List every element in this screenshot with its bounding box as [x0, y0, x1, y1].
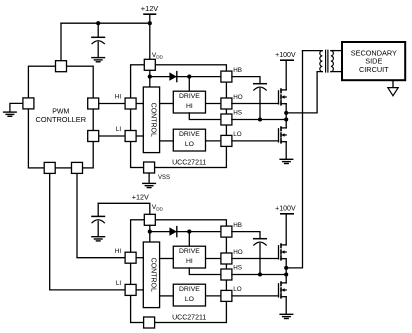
- transformer secondary winding: [331, 51, 333, 72]
- svg-text:LI: LI: [116, 126, 122, 133]
- wire Q2 source to ground: [285, 142, 287, 159]
- node dot C2 to HS wire: [258, 117, 262, 121]
- control block U2: [143, 242, 159, 308]
- wire PWM bottom pin1 to UCC2 LI: [50, 173, 125, 290]
- pin U1 HO: [221, 98, 232, 109]
- svg-text:HI: HI: [186, 103, 193, 110]
- signal ground triangle (secondary): [388, 88, 398, 96]
- svg-text:+100V: +100V: [275, 206, 296, 213]
- wire U1 drive lo to LO pin: [206, 140, 221, 142]
- bootstrap capacitor C4: [232, 232, 266, 275]
- wire U1 LO to Q2 gate: [232, 140, 279, 142]
- wire VDD feed down to UCC1: [149, 23, 151, 59]
- wire U2 HI pin to control: [136, 257, 143, 259]
- svg-text:CONTROLLER: CONTROLLER: [36, 115, 87, 124]
- label DRIVE HI (U2): [179, 248, 200, 265]
- wire U1 HI pin to control: [136, 103, 143, 105]
- svg-text:HS: HS: [233, 265, 242, 272]
- svg-text:DRIVE: DRIVE: [179, 131, 200, 138]
- wire U1 HO to Q1 gate: [232, 103, 279, 105]
- wire U1 control to drive lo: [160, 140, 174, 142]
- svg-text:+12V: +12V: [141, 4, 159, 13]
- ground below Q4: [280, 314, 293, 318]
- svg-text:LI: LI: [116, 280, 122, 287]
- pin U1 VDD: [144, 59, 155, 70]
- wire secondary top to box: [331, 50, 341, 52]
- node dot U2 diode anode: [148, 230, 152, 234]
- wire U2 VDD stub to diode row: [149, 225, 151, 231]
- node dot U2 diode cathode: [187, 230, 191, 234]
- svg-text:HI: HI: [115, 248, 122, 255]
- label VDD (U1): [152, 52, 164, 59]
- svg-text:VSS: VSS: [158, 175, 170, 181]
- pin U1 VSS: [144, 162, 155, 173]
- label SECONDARY SIDE CIRCUIT: [351, 48, 397, 73]
- wire U1 drive hi to HS pin: [189, 113, 221, 120]
- node dot switch node HS (top): [284, 117, 288, 121]
- wire U2 drive-hi top stub: [188, 232, 190, 246]
- wire +12V rail horizontal: [61, 22, 150, 24]
- bootstrap capacitor C2: [232, 77, 266, 120]
- svg-text:DRIVE: DRIVE: [179, 93, 200, 100]
- wire U1 VSS stub: [148, 173, 150, 183]
- pin PWM right HI: [88, 98, 99, 109]
- pin PWM left (GND): [23, 98, 34, 109]
- pin U1 LI: [125, 131, 136, 142]
- wire U2 diode row: [150, 231, 221, 233]
- wire U1 drive-hi top stub: [188, 77, 190, 91]
- pin PWM top (VCC): [56, 61, 67, 72]
- power bar +100V (bottom): [281, 213, 293, 215]
- wire switch node to primary bottom (top bridge): [286, 72, 322, 113]
- wire Q3 source down to Q4 drain: [285, 259, 287, 283]
- wire U1 LI pin to control: [136, 135, 143, 137]
- UCC27211 U1 outer box: [131, 65, 227, 168]
- wire U1 control to drive hi: [160, 103, 174, 105]
- wire PWM LI output to UCC1 LI: [99, 135, 125, 137]
- UCC27211 U2 outer box: [131, 220, 227, 323]
- pin U1 HB: [221, 71, 232, 82]
- svg-text:LO: LO: [233, 286, 242, 293]
- wire secondary box to signal ground: [392, 81, 394, 87]
- label DRIVE LO (U1): [179, 131, 200, 148]
- wire +12V rail to UCC2 VDD: [98, 203, 150, 214]
- transformer primary winding: [320, 51, 322, 72]
- svg-text:CIRCUIT: CIRCUIT: [359, 65, 389, 74]
- wire PWM left pin to ground: [10, 103, 23, 112]
- wire +100V to Q3 drain: [285, 214, 287, 245]
- wire U2 control to drive lo: [160, 295, 174, 297]
- wire U2 drive hi to HS pin: [189, 268, 221, 275]
- pin U2 HB: [221, 226, 232, 237]
- svg-text:CONTROL: CONTROL: [150, 103, 157, 137]
- drive hi block U1: [173, 91, 205, 113]
- node dot C4 to HS wire: [258, 272, 262, 276]
- capacitor C3 (12V bypass, bottom): [92, 203, 105, 236]
- svg-text:+100V: +100V: [275, 52, 296, 59]
- svg-text:HI: HI: [186, 258, 193, 265]
- label DRIVE HI (U1): [179, 93, 200, 110]
- svg-text:HB: HB: [233, 222, 242, 229]
- wire U2 control to drive hi: [160, 258, 174, 260]
- ground below Q2: [280, 159, 293, 163]
- mosfet Q4 (low side, bottom bridge): [279, 282, 287, 298]
- pin U2 VDD: [144, 214, 155, 225]
- wire PWM HI output to UCC1 HI: [99, 103, 125, 105]
- node dot U1 diode cathode: [187, 75, 191, 79]
- svg-text:UCC27211: UCC27211: [172, 160, 206, 167]
- wire Q1 source down to Q2 drain: [285, 104, 287, 128]
- pin U1 HS: [221, 114, 232, 125]
- node junction dot at +12V tee: [148, 21, 152, 25]
- svg-text:HB: HB: [233, 67, 242, 74]
- wire secondary bottom to box: [331, 71, 341, 73]
- wire U2 control stub: [149, 232, 151, 242]
- wire +12V stub: [149, 14, 151, 23]
- wire primary top to long vertical: [303, 50, 323, 52]
- pin U2 LO: [221, 290, 232, 301]
- pin U1 LO: [221, 135, 232, 146]
- wire U2 drive hi to HO pin: [206, 258, 221, 260]
- wire PWM bottom pin2 to UCC2 HI: [77, 173, 125, 257]
- wire U1 VDD stub to diode row: [149, 70, 151, 76]
- mosfet Q1 (high side, top bridge): [279, 89, 287, 105]
- label VDD (U2): [152, 204, 164, 211]
- capacitor C1 (12V bypass, top): [92, 23, 105, 57]
- ground below U1 VSS: [143, 183, 156, 187]
- pin PWM bottom 1: [44, 162, 55, 173]
- ground below C3: [92, 237, 105, 241]
- svg-text:DD: DD: [156, 207, 163, 212]
- svg-text:HS: HS: [233, 110, 242, 117]
- svg-text:HO: HO: [233, 249, 243, 256]
- pin PWM right LI: [88, 131, 99, 142]
- svg-text:LO: LO: [185, 141, 194, 148]
- power bar +100V (top): [281, 59, 293, 61]
- pin PWM bottom 2: [72, 162, 83, 173]
- wire U1 drive hi to HO pin: [206, 103, 221, 105]
- control block U1: [143, 87, 159, 153]
- wire U2 HS row to switch node: [232, 274, 286, 276]
- svg-text:LO: LO: [185, 296, 194, 303]
- drive lo block U1: [173, 129, 205, 151]
- node dot switch node to transformer (top): [284, 111, 288, 115]
- drive hi block U2: [173, 246, 205, 268]
- pin U2 HI: [125, 252, 136, 263]
- wire U1 control stub: [149, 77, 151, 87]
- PWM controller box: [28, 66, 93, 168]
- node dot switch node HS (bottom): [284, 272, 288, 276]
- drive lo block U2: [173, 284, 205, 306]
- wire Q4 source to ground: [285, 297, 287, 314]
- pin U2 LI: [125, 284, 136, 295]
- mosfet Q3 (high side, bottom bridge): [279, 244, 287, 260]
- svg-text:DRIVE: DRIVE: [179, 248, 200, 255]
- svg-text:HI: HI: [115, 94, 122, 101]
- wire from top pin up to +12V rail: [60, 23, 62, 61]
- pin U2 HS: [221, 269, 232, 280]
- svg-text:UCC27211: UCC27211: [172, 315, 206, 322]
- mosfet Q2 (low side, top bridge): [279, 127, 287, 143]
- pin U1 HI: [125, 98, 136, 109]
- svg-text:+12V: +12V: [132, 193, 149, 202]
- wire U1 HS row to switch node: [232, 119, 286, 121]
- node dot U1 diode anode: [148, 75, 152, 79]
- transformer core: [326, 50, 328, 72]
- wire U2 LI pin to control: [136, 289, 143, 291]
- node junction dot at cap tee: [96, 21, 100, 25]
- wire +100V to Q1 drain: [285, 60, 287, 90]
- svg-text:LO: LO: [233, 131, 242, 138]
- boot diode D1: [169, 72, 176, 82]
- wire U1 diode row: [150, 76, 221, 78]
- svg-text:HO: HO: [233, 94, 243, 101]
- svg-text:CONTROL: CONTROL: [150, 258, 157, 292]
- power bar +12V (top): [144, 13, 156, 15]
- ground below C1: [92, 58, 105, 62]
- label DRIVE LO (U2): [179, 286, 200, 303]
- pin U2 VSS: [144, 317, 155, 328]
- wire U2 LO to Q4 gate: [232, 295, 279, 297]
- secondary side circuit box: [342, 42, 405, 80]
- wire long vertical to bottom bridge switch node: [286, 51, 302, 268]
- wire U2 HO to Q3 gate: [232, 258, 279, 260]
- node dot switch node to transformer (bottom): [284, 266, 288, 270]
- pin U2 HO: [221, 253, 232, 264]
- ground at PWM left: [4, 112, 17, 116]
- PWM controller label: [36, 108, 87, 124]
- svg-text:DD: DD: [156, 55, 163, 60]
- wire U2 drive lo to LO pin: [206, 295, 221, 297]
- svg-text:DRIVE: DRIVE: [179, 286, 200, 293]
- boot diode D2: [169, 227, 176, 237]
